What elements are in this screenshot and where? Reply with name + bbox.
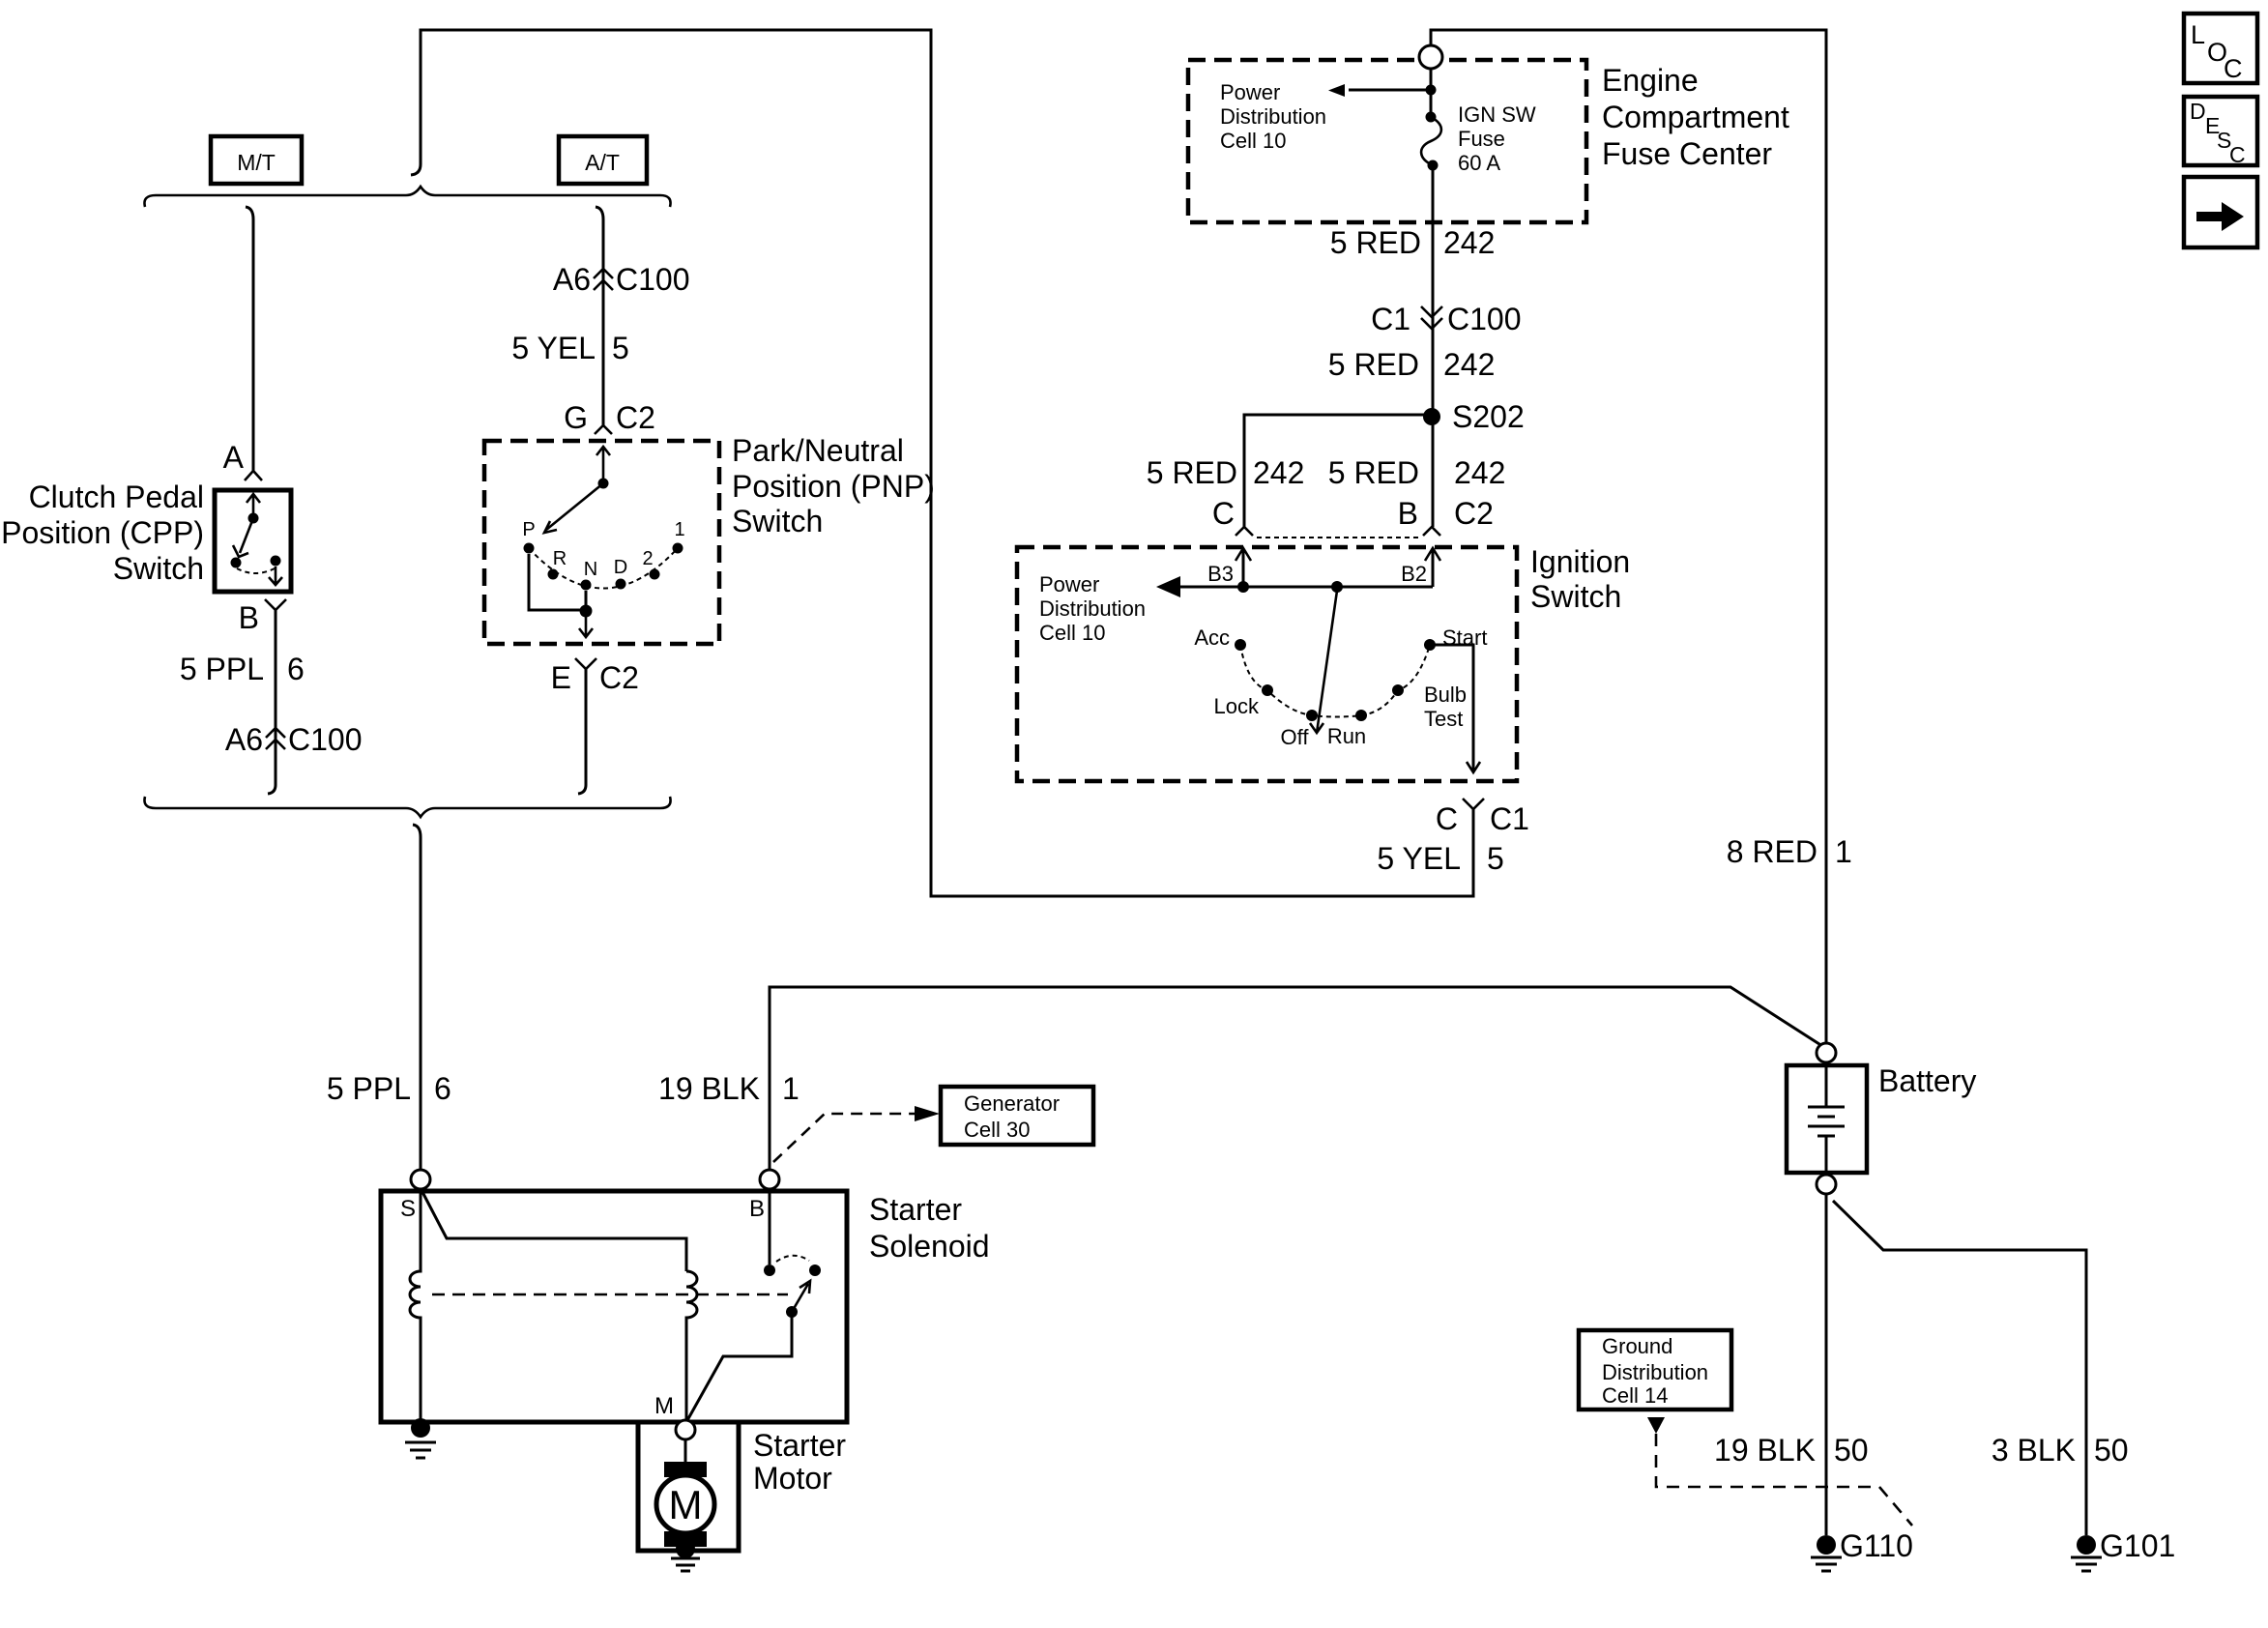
in-line connector C1 C100 bbox=[1421, 306, 1442, 329]
svg-text:6: 6 bbox=[434, 1071, 451, 1106]
wire from terminal to fuse bbox=[1430, 69, 1433, 112]
svg-text:Compartment: Compartment bbox=[1602, 100, 1789, 134]
svg-text:Solenoid: Solenoid bbox=[869, 1229, 990, 1264]
PNP position dot D bbox=[616, 579, 626, 590]
position dot Acc bbox=[1235, 639, 1246, 651]
connector fork at CPP pin A bbox=[245, 471, 262, 480]
svg-text:Bulb: Bulb bbox=[1424, 683, 1467, 707]
start output wire and arrow to pin C bbox=[1430, 645, 1473, 771]
B3 arrow bbox=[1242, 549, 1245, 587]
svg-text:Lock: Lock bbox=[1214, 694, 1260, 718]
svg-text:C1: C1 bbox=[1371, 302, 1410, 336]
PNP pivot dot bbox=[598, 479, 609, 489]
PNP position dot N bbox=[581, 580, 592, 591]
svg-text:Off: Off bbox=[1281, 725, 1310, 749]
svg-text:Position (CPP): Position (CPP) bbox=[1, 515, 204, 550]
battery cell plates bbox=[1808, 1065, 1845, 1173]
position dot Run bbox=[1355, 710, 1367, 721]
svg-text:Switch: Switch bbox=[1530, 579, 1621, 614]
ignition position dashed arc bbox=[1240, 645, 1430, 717]
svg-text:5 YEL: 5 YEL bbox=[1377, 841, 1461, 876]
svg-text:S: S bbox=[400, 1196, 416, 1222]
svg-text:IGN SW: IGN SW bbox=[1458, 102, 1536, 127]
svg-text:Acc: Acc bbox=[1194, 625, 1230, 650]
wire from M terminal to motor bbox=[684, 1439, 687, 1463]
connector fork at PNP pin E and wire down bbox=[575, 658, 596, 669]
ground G110 bbox=[1817, 1535, 1836, 1555]
svg-text:5: 5 bbox=[612, 331, 629, 365]
contact travel dashed arc bbox=[776, 1256, 809, 1262]
wire from fuse down to ignition switch pin B bbox=[1432, 170, 1435, 527]
dashed reference arrow to Generator bbox=[773, 1114, 915, 1162]
moving contact linkage to M bbox=[686, 1312, 792, 1422]
svg-text:1: 1 bbox=[782, 1071, 800, 1106]
connector fork at ignition pin C (C1) bbox=[1463, 799, 1484, 809]
wire branch from S202 to ignition switch pin C bbox=[1244, 415, 1432, 527]
wire from N contact to output node bbox=[585, 591, 588, 610]
CPP right contact dot bbox=[271, 556, 281, 567]
svg-text:A6: A6 bbox=[225, 722, 263, 757]
svg-text:242: 242 bbox=[1443, 347, 1495, 382]
brace over M/T and A/T branches bbox=[144, 187, 670, 207]
terminal S of starter solenoid bbox=[411, 1170, 430, 1189]
svg-text:B3: B3 bbox=[1207, 562, 1234, 586]
svg-text:Cell 10: Cell 10 bbox=[1220, 129, 1286, 153]
svg-text:L: L bbox=[2191, 20, 2205, 49]
wire from B terminal to contact bbox=[769, 1191, 771, 1265]
svg-text:B: B bbox=[1398, 496, 1418, 531]
svg-text:1: 1 bbox=[674, 519, 684, 540]
connector fork at PNP pin G bbox=[595, 425, 612, 434]
svg-text:1: 1 bbox=[1835, 834, 1852, 869]
svg-text:5: 5 bbox=[1487, 841, 1504, 876]
svg-text:M/T: M/T bbox=[237, 150, 276, 175]
PNP arrow to pin E bbox=[579, 617, 593, 637]
svg-text:N: N bbox=[584, 559, 597, 580]
PNP switch dashed box bbox=[484, 441, 719, 644]
motor ground dot bbox=[676, 1539, 695, 1558]
position dot Lock bbox=[1262, 684, 1273, 696]
svg-text:Run: Run bbox=[1327, 724, 1366, 748]
svg-text:Cell 14: Cell 14 bbox=[1602, 1383, 1668, 1408]
position dot Off bbox=[1306, 710, 1318, 721]
motor ground symbol bbox=[671, 1558, 700, 1571]
bus junction dot rotor bbox=[1331, 581, 1343, 593]
svg-text:Starter: Starter bbox=[753, 1428, 846, 1463]
starter motor box bbox=[638, 1422, 739, 1551]
svg-text:5 RED: 5 RED bbox=[1328, 455, 1419, 490]
solenoid moving contact arrow bbox=[792, 1281, 810, 1312]
solenoid fixed contact (right) bbox=[809, 1265, 821, 1276]
svg-text:C2: C2 bbox=[616, 400, 655, 435]
svg-text:Cell 30: Cell 30 bbox=[964, 1118, 1030, 1142]
Engine Compartment Fuse Center dashed box bbox=[1188, 60, 1586, 222]
svg-text:50: 50 bbox=[2094, 1433, 2129, 1468]
svg-text:G110: G110 bbox=[1840, 1528, 1913, 1563]
PNP position dot P bbox=[524, 543, 535, 554]
power distribution tap dot bbox=[1426, 85, 1437, 96]
wire: A/T branch down to PNP switch pin G bbox=[596, 207, 603, 425]
svg-text:C100: C100 bbox=[1447, 302, 1522, 336]
svg-text:B2: B2 bbox=[1401, 562, 1427, 586]
svg-text:D: D bbox=[614, 557, 627, 578]
svg-text:A6: A6 bbox=[553, 262, 591, 297]
svg-text:Power: Power bbox=[1220, 80, 1280, 104]
svg-text:C: C bbox=[2229, 142, 2246, 167]
svg-text:Ignition: Ignition bbox=[1530, 544, 1630, 579]
Generator Cell 30 reference box bbox=[941, 1087, 1093, 1145]
solenoid case ground dot bbox=[411, 1418, 430, 1438]
CPP contact travel dashed arc bbox=[237, 568, 275, 573]
svg-text:A: A bbox=[223, 440, 245, 475]
svg-text:8 RED: 8 RED bbox=[1727, 834, 1817, 869]
fuse center input terminal bbox=[1419, 45, 1442, 69]
wire: right trunk 8 RED from fuse center top across to battery bbox=[1431, 30, 1826, 1043]
connector fork at ignition pin B bbox=[1423, 527, 1440, 536]
svg-text:5 RED: 5 RED bbox=[1147, 455, 1237, 490]
wire: 19 BLK from solenoid B up and over to battery bbox=[770, 987, 1822, 1170]
ignition feed bus bbox=[1180, 586, 1433, 589]
svg-text:G101: G101 bbox=[2100, 1528, 2175, 1563]
svg-text:242: 242 bbox=[1253, 455, 1304, 490]
svg-text:R: R bbox=[553, 548, 567, 569]
position dot Start bbox=[1424, 639, 1436, 651]
svg-text:M: M bbox=[654, 1393, 674, 1419]
svg-text:5 PPL: 5 PPL bbox=[180, 652, 264, 686]
A/T box bbox=[559, 136, 647, 184]
svg-text:6: 6 bbox=[287, 652, 305, 686]
PNP rotor blade arrow toward P bbox=[544, 483, 603, 533]
svg-text:242: 242 bbox=[1454, 455, 1505, 490]
battery positive terminal bbox=[1817, 1043, 1836, 1062]
starter solenoid box bbox=[381, 1191, 847, 1422]
wire: M/T branch down to CPP switch pin A bbox=[246, 207, 253, 471]
CPP pivot dot bbox=[248, 513, 259, 524]
svg-text:Starter: Starter bbox=[869, 1192, 962, 1227]
bus junction dot B3 bbox=[1237, 581, 1249, 593]
position dot Bulb Test bbox=[1392, 684, 1404, 696]
svg-text:3 BLK: 3 BLK bbox=[1992, 1433, 2076, 1468]
connector fork at CPP pin B and wire down bbox=[265, 599, 286, 610]
wire battery negative to G110 bbox=[1825, 1194, 1828, 1535]
svg-text:5 RED: 5 RED bbox=[1328, 347, 1419, 382]
IGN SW fuse element bbox=[1426, 112, 1437, 123]
svg-text:S202: S202 bbox=[1452, 399, 1525, 434]
svg-text:Fuse: Fuse bbox=[1458, 127, 1505, 151]
wire from brace down to starter solenoid pin S bbox=[413, 825, 421, 1170]
motor armature circle bbox=[656, 1475, 714, 1533]
svg-text:Position (PNP): Position (PNP) bbox=[732, 469, 935, 504]
svg-text:Fuse Center: Fuse Center bbox=[1602, 136, 1772, 171]
LOC corner box bbox=[2184, 14, 2257, 83]
ground G101 bbox=[2077, 1535, 2096, 1555]
svg-text:Distribution: Distribution bbox=[1602, 1360, 1708, 1384]
ground distribution reference arrow bbox=[1647, 1417, 1665, 1434]
battery negative terminal bbox=[1817, 1175, 1836, 1194]
PNP position dot 1 bbox=[673, 543, 683, 554]
svg-text:Engine: Engine bbox=[1602, 63, 1699, 98]
svg-text:E: E bbox=[551, 660, 571, 695]
terminal M of starter motor bbox=[676, 1420, 695, 1439]
svg-text:Battery: Battery bbox=[1878, 1063, 1976, 1098]
svg-text:Switch: Switch bbox=[113, 551, 204, 586]
CPP switch blade arrow bbox=[233, 518, 253, 557]
svg-text:5 RED: 5 RED bbox=[1330, 225, 1421, 260]
svg-text:D: D bbox=[2190, 99, 2206, 124]
brace joining M/T and A/T branches at bottom bbox=[144, 797, 670, 817]
hold-in winding coil and wire to ground bbox=[410, 1191, 421, 1422]
svg-text:M: M bbox=[669, 1482, 703, 1527]
connector C2 boundary dashed line bbox=[1257, 537, 1421, 538]
pull-in winding coil and wire to M bbox=[686, 1271, 697, 1422]
svg-text:Clutch Pedal: Clutch Pedal bbox=[29, 480, 204, 514]
wire from S to pull-in winding bbox=[422, 1192, 686, 1271]
solenoid ground symbol bbox=[405, 1442, 436, 1458]
connector fork at ignition pin C bbox=[1236, 527, 1253, 536]
svg-text:2: 2 bbox=[642, 548, 653, 569]
svg-text:B: B bbox=[239, 600, 259, 635]
svg-text:P: P bbox=[522, 519, 535, 540]
svg-text:Power: Power bbox=[1039, 572, 1099, 596]
svg-text:G: G bbox=[564, 400, 588, 435]
svg-text:Distribution: Distribution bbox=[1039, 596, 1146, 621]
terminal B of starter solenoid bbox=[760, 1170, 779, 1189]
in-line connector A6 C100 (A/T branch) bbox=[594, 269, 613, 290]
battery box bbox=[1787, 1065, 1867, 1173]
wire battery negative to G101 bbox=[1833, 1201, 2086, 1535]
svg-text:C100: C100 bbox=[616, 262, 690, 297]
svg-text:A/T: A/T bbox=[585, 150, 620, 175]
svg-text:Cell 10: Cell 10 bbox=[1039, 621, 1105, 645]
B2 arrow bbox=[1432, 549, 1435, 587]
svg-text:B: B bbox=[749, 1196, 765, 1222]
DESC corner box bbox=[2184, 97, 2257, 165]
svg-text:Switch: Switch bbox=[732, 504, 823, 538]
CPP switch box bbox=[215, 490, 291, 592]
mechanical link dashed line bbox=[432, 1294, 788, 1296]
arrow corner box bbox=[2184, 177, 2257, 247]
motor brush block bottom bbox=[664, 1531, 707, 1547]
svg-text:C1: C1 bbox=[1490, 801, 1529, 836]
svg-text:Ground: Ground bbox=[1602, 1334, 1672, 1358]
PNP position dot R bbox=[548, 569, 559, 580]
svg-text:Test: Test bbox=[1424, 707, 1463, 731]
svg-text:C: C bbox=[1212, 496, 1235, 531]
svg-text:Park/Neutral: Park/Neutral bbox=[732, 433, 904, 468]
splice S202 bbox=[1423, 408, 1440, 425]
svg-text:19 BLK: 19 BLK bbox=[1714, 1433, 1816, 1468]
svg-text:C: C bbox=[2224, 54, 2243, 83]
CPP left contact dot bbox=[231, 558, 242, 568]
CPP arrow to pin B bbox=[269, 567, 282, 585]
svg-text:C2: C2 bbox=[599, 660, 639, 695]
M/T box bbox=[211, 136, 302, 184]
PNP output junction dot bbox=[580, 605, 593, 618]
motor brush block top bbox=[664, 1462, 707, 1477]
svg-text:C2: C2 bbox=[1454, 496, 1494, 531]
CPP arrow to pin A bbox=[247, 494, 260, 518]
solenoid fixed contact (B side) bbox=[764, 1265, 775, 1276]
svg-text:242: 242 bbox=[1443, 225, 1495, 260]
svg-text:Generator: Generator bbox=[964, 1091, 1060, 1116]
Ground Distribution Cell 14 reference box bbox=[1579, 1330, 1731, 1410]
svg-text:19 BLK: 19 BLK bbox=[658, 1071, 760, 1106]
PNP arrow to pin G bbox=[596, 447, 610, 483]
svg-text:5 YEL: 5 YEL bbox=[511, 331, 596, 365]
Ignition Switch dashed box bbox=[1017, 547, 1517, 781]
svg-text:50: 50 bbox=[1834, 1433, 1869, 1468]
svg-text:Distribution: Distribution bbox=[1220, 104, 1326, 129]
arrow to Power Distribution bbox=[1349, 89, 1431, 92]
svg-text:C: C bbox=[1436, 801, 1458, 836]
svg-text:Motor: Motor bbox=[753, 1461, 832, 1496]
PNP position dot 2 bbox=[650, 569, 660, 580]
svg-text:5 PPL: 5 PPL bbox=[327, 1071, 411, 1106]
in-line connector A6 C100 (left) bbox=[266, 728, 285, 749]
PNP position dashed arc bbox=[529, 548, 678, 589]
wire: 5 YEL feed loop from ignition C1 down, left along bottom, up and across top to M/T-A/T brace bbox=[411, 30, 1473, 896]
ignition rotor arrow to Off bbox=[1310, 591, 1337, 733]
solenoid contact pivot dot bbox=[786, 1306, 798, 1318]
svg-text:60 A: 60 A bbox=[1458, 151, 1500, 175]
svg-text:C100: C100 bbox=[288, 722, 363, 757]
wire from P contact to output node bbox=[529, 554, 580, 610]
